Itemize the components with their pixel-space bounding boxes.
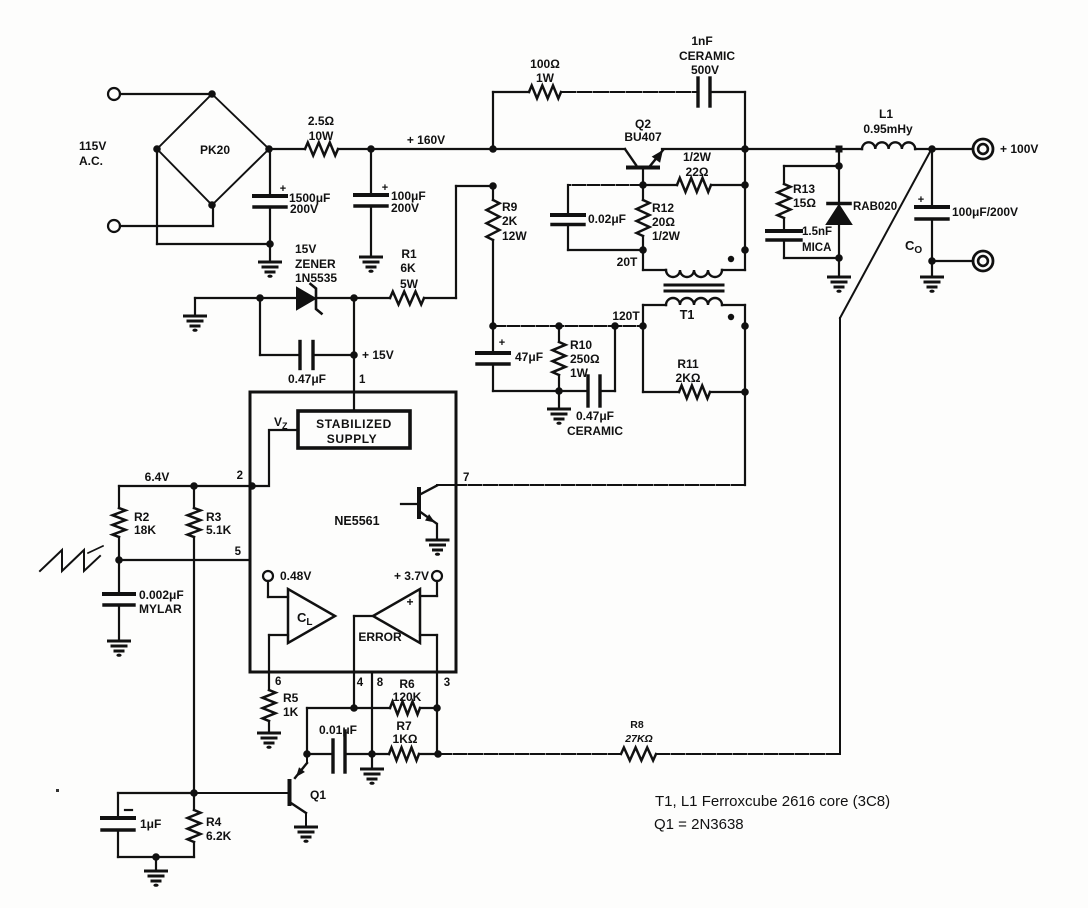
- wire row1 left down: [306, 708, 308, 754]
- wire pin3 to row2: [436, 708, 438, 754]
- label +160V: [407, 133, 445, 147]
- wire R8 row right: [656, 753, 840, 755]
- svg-text:R5: R5: [283, 691, 299, 705]
- node R7 right: [434, 750, 442, 758]
- wire error output to pin4: [354, 616, 373, 672]
- terminal input bottom (115V AC): [108, 220, 120, 232]
- node R11 right: [741, 388, 749, 396]
- label Vz: [274, 415, 288, 431]
- transformer T1 secondary winding 120T: [643, 298, 745, 392]
- inductor L1 0.95mHy: [862, 107, 915, 149]
- resistor R2 18K: [113, 486, 157, 560]
- svg-text:MYLAR: MYLAR: [139, 602, 182, 616]
- wire pin3: [436, 672, 438, 708]
- svg-text:1KΩ: 1KΩ: [393, 732, 418, 746]
- wire pin1: [353, 298, 355, 411]
- svg-text:250Ω: 250Ω: [570, 352, 600, 366]
- node bridge ground junction: [266, 240, 274, 248]
- svg-text:BU407: BU407: [624, 130, 662, 144]
- capacitor 0.01uF: [307, 723, 372, 772]
- resistor R11 2Kohm: [643, 357, 745, 399]
- node Co bottom: [928, 257, 936, 265]
- svg-text:R8: R8: [630, 719, 644, 731]
- error amp: [358, 589, 420, 644]
- svg-text:+: +: [918, 194, 924, 206]
- capacitor 1uF: [102, 793, 194, 857]
- svg-text:2: 2: [237, 470, 243, 482]
- ground under 1500uF: [260, 244, 281, 278]
- resistor R13 15ohm: [778, 166, 817, 229]
- capacitor 0.47uF ceramic: [559, 326, 623, 438]
- resistor R12 20ohm 1/2W: [637, 185, 681, 250]
- svg-text:200V: 200V: [290, 202, 318, 216]
- svg-text:1W: 1W: [536, 71, 555, 85]
- svg-text:7: 7: [463, 472, 469, 484]
- svg-text:2K: 2K: [502, 214, 518, 228]
- svg-text:R7: R7: [396, 719, 412, 733]
- svg-text:R11: R11: [677, 357, 699, 371]
- node +15V top junction: [350, 294, 358, 302]
- svg-text:PK20: PK20: [200, 143, 230, 157]
- svg-text:15Ω: 15Ω: [793, 196, 816, 210]
- node R10 bottom: [555, 387, 563, 395]
- svg-text:+: +: [499, 337, 505, 349]
- svg-text:120K: 120K: [393, 690, 422, 704]
- svg-text:18K: 18K: [134, 523, 156, 537]
- svg-text:+: +: [382, 182, 388, 194]
- wire snubber down: [838, 149, 840, 166]
- svg-text:2.5Ω: 2.5Ω: [308, 114, 335, 128]
- wire base row left: [568, 185, 643, 213]
- wire R8 row left: [438, 753, 621, 755]
- node R9 bottom junction: [489, 322, 497, 330]
- wire R1 up to R9 node: [424, 186, 493, 298]
- node ground junction 1uF: [152, 853, 160, 861]
- ground under 0.002uF: [109, 641, 130, 657]
- wire 47uF bottom row: [493, 390, 559, 392]
- ground left of zener: [185, 298, 206, 332]
- svg-text:+: +: [280, 183, 286, 195]
- wire bridge to resistor 2.5ohm: [269, 148, 305, 150]
- svg-text:A.C.: A.C.: [79, 154, 103, 168]
- node RAB020 bottom: [835, 254, 843, 262]
- node T1 primary right: [741, 246, 749, 254]
- svg-text:0.47μF: 0.47μF: [576, 409, 614, 423]
- label pin 8: [377, 677, 384, 689]
- terminal output +100V: [973, 139, 993, 159]
- svg-text:R4: R4: [206, 815, 222, 829]
- svg-text:0.02μF: 0.02μF: [588, 212, 626, 226]
- wire L1 to output terminal: [915, 148, 973, 150]
- ground under RAB020: [829, 258, 850, 293]
- node pin3 row1: [433, 704, 441, 712]
- label NE5561: [334, 514, 379, 528]
- sawtooth waveform symbol: [40, 546, 103, 571]
- wire pin2 row 6.4V: [119, 485, 250, 487]
- svg-text:6.4V: 6.4V: [145, 470, 170, 484]
- node rail junction x493: [489, 145, 497, 153]
- node L1 left junction: [836, 146, 843, 153]
- svg-text:CERAMIC: CERAMIC: [567, 424, 623, 438]
- node 100uF top: [367, 145, 375, 153]
- svg-text:8: 8: [377, 677, 384, 689]
- wire Vz to pin2: [250, 430, 298, 486]
- ground under Q1: [296, 827, 317, 843]
- svg-text:1nF: 1nF: [691, 34, 712, 48]
- diode RAB020: [827, 166, 897, 258]
- svg-text:10W: 10W: [309, 129, 334, 143]
- wire to R13: [784, 165, 839, 167]
- svg-text:+ 100V: + 100V: [1000, 142, 1038, 156]
- svg-text:20T: 20T: [617, 255, 638, 269]
- wire 3.7V to error amp: [420, 581, 437, 596]
- svg-text:100μF/200V: 100μF/200V: [952, 205, 1018, 219]
- svg-text:1W: 1W: [570, 366, 589, 380]
- resistor R3 5.1K: [188, 486, 232, 537]
- wire CL lower input to pin6: [269, 635, 288, 672]
- wire input bottom to bridge: [120, 205, 213, 226]
- capacitor 1500uF 200V: [254, 149, 330, 244]
- label T1: [680, 308, 695, 322]
- wire feedback diagonal: [840, 150, 931, 754]
- svg-text:STABILIZED: STABILIZED: [316, 417, 392, 431]
- svg-text:Q1 = 2N3638: Q1 = 2N3638: [654, 816, 744, 833]
- transformer T1 primary winding 20T: [643, 250, 745, 277]
- label +100V: [1000, 142, 1038, 156]
- phase dot primary: [728, 256, 734, 262]
- wire to zener: [260, 297, 297, 299]
- capacitor 0.002uF MYLAR: [104, 560, 184, 641]
- node +15V: [350, 351, 358, 359]
- svg-text:12W: 12W: [502, 229, 527, 243]
- svg-text:MICA: MICA: [802, 242, 831, 254]
- svg-text:CERAMIC: CERAMIC: [679, 49, 735, 63]
- label pin 5: [235, 546, 242, 558]
- label pin 4: [357, 677, 364, 689]
- svg-text:NE5561: NE5561: [334, 514, 379, 528]
- wire ground to zener: [195, 297, 260, 299]
- node output junction: [928, 145, 936, 153]
- svg-text:1N5535: 1N5535: [295, 271, 337, 285]
- node 220 right: [741, 181, 749, 189]
- ground under 1uF: [146, 857, 167, 887]
- svg-text:2KΩ: 2KΩ: [676, 371, 701, 385]
- svg-text:1.5nF: 1.5nF: [802, 226, 832, 238]
- ground under R10: [549, 391, 570, 425]
- wire input top to bridge: [120, 93, 212, 95]
- svg-text:T1: T1: [680, 308, 695, 322]
- svg-text:1/2W: 1/2W: [652, 229, 681, 243]
- capacitor 0.47uF (15V rail): [260, 298, 354, 386]
- node pin8 row2: [368, 750, 376, 758]
- wire R3 down to Q1 base: [193, 537, 195, 793]
- svg-text:SUPPLY: SUPPLY: [327, 432, 378, 446]
- svg-text:R12: R12: [652, 201, 674, 215]
- comparator CL: [288, 589, 335, 643]
- node R9 top: [489, 182, 497, 190]
- wire zener cathode to R1: [316, 297, 390, 299]
- svg-text:5.1K: 5.1K: [206, 523, 232, 537]
- capacitor 1.5nF MICA: [767, 226, 839, 258]
- label 20T: [617, 255, 638, 269]
- label 6.4V: [145, 470, 170, 484]
- svg-text:120T: 120T: [612, 309, 640, 323]
- svg-text:+ 160V: + 160V: [407, 133, 445, 147]
- wire T1 to pin7: [456, 392, 745, 485]
- terminal input top (115V AC): [108, 88, 120, 100]
- input circle 0.48V: [263, 569, 311, 583]
- ground under pin8: [362, 754, 383, 785]
- wire snubber middle: [561, 91, 697, 93]
- svg-text:15V: 15V: [295, 242, 316, 256]
- transistor Q1 2N3638: [194, 754, 326, 827]
- capacitor 100uF 200V: [355, 149, 426, 257]
- node T1 secondary right top: [741, 322, 749, 330]
- svg-text:R6: R6: [399, 677, 415, 691]
- node pin4 row1: [350, 704, 358, 712]
- svg-text:ERROR: ERROR: [358, 630, 402, 644]
- wire node row: [493, 325, 643, 327]
- svg-text:500V: 500V: [691, 63, 719, 77]
- svg-text:3: 3: [444, 677, 450, 689]
- zener diode 1N5535 15V: [295, 242, 337, 314]
- svg-text:20Ω: 20Ω: [652, 215, 675, 229]
- wire 0.48V to CL: [268, 581, 288, 597]
- label 115V A.C.: [79, 139, 106, 168]
- resistor R4 6.2K: [188, 793, 232, 857]
- wire bridge left to ground rail: [157, 149, 270, 244]
- svg-text:0.95mHy: 0.95mHy: [863, 122, 913, 136]
- wire pin8: [371, 672, 373, 754]
- ground under R5: [259, 733, 280, 749]
- wire pin5 row: [119, 559, 250, 561]
- ground under internal transistor: [427, 524, 448, 556]
- capacitor 47uF: [477, 326, 543, 391]
- svg-text:+: +: [406, 595, 413, 609]
- node R13 top junction: [835, 162, 843, 170]
- node zener anode junction: [256, 294, 264, 302]
- block stabilized supply: [298, 411, 410, 448]
- node T1 primary left: [639, 246, 647, 254]
- node Q1 emitter junction: [303, 750, 311, 758]
- node row x559 top: [555, 322, 563, 330]
- label pin 3: [444, 677, 450, 689]
- label pin 2: [237, 470, 243, 482]
- node T1 secondary left: [639, 322, 647, 330]
- label pin 7: [463, 472, 469, 484]
- label pin 1: [359, 374, 366, 386]
- wire error lower to pin3: [420, 635, 437, 672]
- IC internal transistor: [401, 485, 456, 524]
- label pin 6: [275, 676, 281, 688]
- wire Co to lower terminal: [932, 260, 973, 262]
- node Q2 base: [639, 181, 647, 189]
- resistor R1 6K 5W: [390, 247, 424, 305]
- input circle +3.7V: [394, 569, 442, 583]
- resistor 22ohm 1/2W: [643, 150, 745, 192]
- bridge rectifier PK20: [153, 90, 273, 209]
- wire snubber left: [493, 91, 529, 93]
- resistor R6 120K: [307, 677, 437, 715]
- terminal output return: [973, 251, 993, 271]
- ground under Co: [922, 261, 943, 293]
- wire rail up to snubber: [492, 92, 494, 149]
- svg-text:5: 5: [235, 546, 242, 558]
- node rail junction x745: [741, 145, 749, 153]
- wire Q2 emitter rail: [662, 148, 862, 150]
- wire right vertical x745: [744, 149, 746, 250]
- label +15V: [362, 348, 394, 362]
- svg-text:1μF: 1μF: [140, 817, 161, 831]
- svg-text:0.47μF: 0.47μF: [288, 372, 326, 386]
- svg-text:4: 4: [357, 677, 364, 689]
- node 0.47uF top: [611, 322, 619, 330]
- label Co: [905, 238, 922, 256]
- svg-text:R10: R10: [570, 338, 592, 352]
- svg-text:R3: R3: [206, 510, 222, 524]
- IC NE5561 box: [250, 392, 456, 672]
- svg-text:RAB020: RAB020: [853, 201, 897, 213]
- node sawtooth junction: [115, 556, 123, 564]
- svg-text:22Ω: 22Ω: [686, 165, 709, 179]
- svg-text:5W: 5W: [400, 277, 419, 291]
- node R3 top: [190, 482, 198, 490]
- node pin2: [248, 482, 256, 490]
- svg-text:1: 1: [359, 374, 366, 386]
- svg-text:R13: R13: [793, 182, 815, 196]
- svg-text:200V: 200V: [391, 201, 419, 215]
- svg-text:L1: L1: [879, 107, 893, 121]
- capacitor Co 100uF/200V: [916, 149, 1018, 261]
- resistor R10 250ohm 1W: [553, 326, 601, 391]
- svg-text:R2: R2: [134, 510, 150, 524]
- svg-text:0.48V: 0.48V: [280, 569, 311, 583]
- label 120T: [612, 309, 640, 323]
- note T1 L1 core: [655, 793, 890, 810]
- svg-text:6K: 6K: [400, 261, 416, 275]
- transistor Q2 BU407: [624, 117, 663, 185]
- svg-text:1/2W: 1/2W: [683, 150, 712, 164]
- svg-text:27KΩ: 27KΩ: [624, 733, 652, 745]
- resistor 100ohm 1W: [529, 57, 561, 99]
- svg-text:ZENER: ZENER: [295, 257, 336, 271]
- svg-text:100Ω: 100Ω: [530, 57, 560, 71]
- svg-text:R9: R9: [502, 200, 518, 214]
- svg-text:6.2K: 6.2K: [206, 829, 232, 843]
- capacitor 0.02uF: [552, 212, 643, 250]
- svg-text:0.002μF: 0.002μF: [139, 588, 184, 602]
- wire pin4: [353, 672, 355, 708]
- svg-text:0.01μF: 0.01μF: [319, 723, 357, 737]
- resistor R8 27Kohm: [621, 719, 656, 761]
- svg-text:+ 15V: + 15V: [362, 348, 394, 362]
- svg-text:115V: 115V: [79, 139, 106, 153]
- wire snubber right down: [710, 92, 745, 149]
- svg-text:47μF: 47μF: [515, 350, 543, 364]
- svg-text:Q2: Q2: [635, 117, 651, 131]
- node Q1 base junction: [190, 789, 198, 797]
- ground under 100uF: [361, 257, 382, 273]
- transformer core: [665, 285, 723, 291]
- phase dot secondary: [728, 314, 734, 320]
- note Q1 type: [654, 816, 744, 833]
- resistor R9 2K 12W: [487, 186, 528, 326]
- svg-text:1K: 1K: [283, 705, 299, 719]
- wire rail to Q2: [338, 148, 625, 150]
- resistor R5 1K: [263, 672, 299, 733]
- svg-text:+ 3.7V: + 3.7V: [394, 569, 429, 583]
- svg-text:6: 6: [275, 676, 281, 688]
- svg-text:Q1: Q1: [310, 788, 326, 802]
- resistor 2.5ohm 10W: [305, 114, 338, 156]
- speck: [56, 789, 59, 792]
- svg-text:R1: R1: [401, 247, 417, 261]
- resistor R7 1Kohm: [372, 719, 438, 761]
- capacitor 1nF ceramic 500V: [679, 34, 735, 106]
- svg-text:T1, L1 Ferroxcube 2616 core (3: T1, L1 Ferroxcube 2616 core (3C8): [655, 793, 890, 810]
